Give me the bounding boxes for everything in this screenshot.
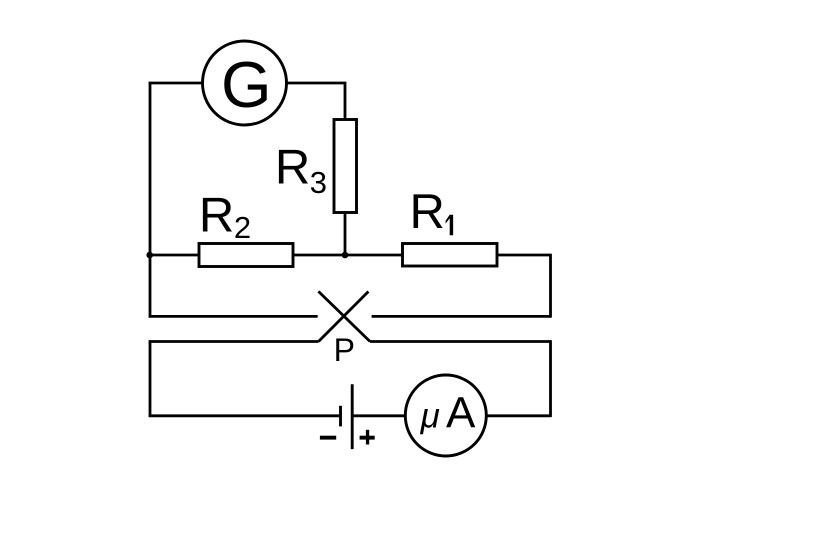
wire lower loop top left segment	[149, 340, 319, 343]
wire node-left to R2	[150, 254, 199, 257]
wire R3 bottom to node	[344, 213, 347, 256]
resistor R3	[334, 120, 357, 213]
node junction dot left	[146, 252, 153, 259]
wire upper loop bottom right segment	[372, 315, 552, 318]
node junction dot center	[342, 252, 349, 259]
svg-text:P: P	[334, 332, 355, 368]
battery positive long plate	[351, 384, 354, 449]
resistor R2	[199, 244, 293, 267]
label plus	[360, 436, 375, 440]
svg-text:R: R	[275, 140, 310, 194]
svg-text:R: R	[410, 185, 445, 239]
crossed wires X	[318, 291, 370, 341]
wire R2 to R1	[293, 254, 403, 257]
svg-text:2: 2	[234, 210, 251, 245]
wire top-left horizontal to galvanometer	[149, 82, 203, 85]
wire lower loop right vertical	[549, 340, 552, 417]
wire lower loop top right segment	[370, 340, 551, 343]
wire bottom left to battery	[149, 414, 341, 417]
svg-text:R: R	[199, 188, 234, 242]
wire galvanometer to top of R3	[287, 83, 346, 120]
label minus	[320, 436, 336, 440]
resistor R1	[403, 244, 498, 267]
wire right vertical upper loop	[549, 254, 552, 318]
wire left vertical	[149, 82, 152, 318]
svg-text:G: G	[221, 48, 272, 121]
galvanometer G	[203, 41, 287, 125]
svg-text:A: A	[446, 389, 476, 438]
svg-text:3: 3	[310, 165, 327, 200]
microammeter uA	[405, 375, 486, 456]
wire lower loop left vertical	[149, 340, 152, 417]
svg-text:μ: μ	[420, 397, 440, 436]
battery negative short plate	[339, 406, 342, 427]
wire R1 to right side	[497, 254, 551, 257]
wire battery to microammeter	[352, 414, 405, 417]
wire microammeter to right	[486, 414, 551, 417]
wire upper loop bottom left segment	[149, 315, 318, 318]
